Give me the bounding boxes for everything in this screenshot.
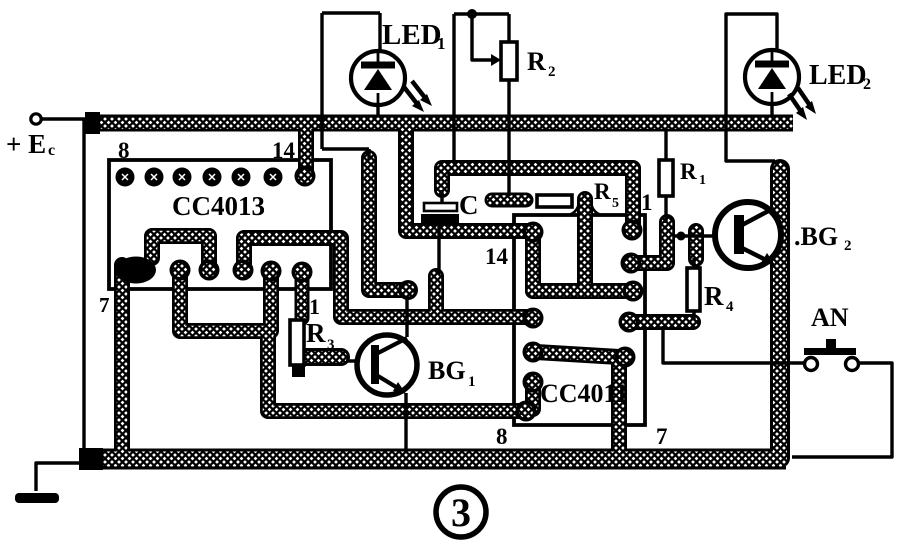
svg-text:7: 7 xyxy=(99,293,110,317)
svg-text:8: 8 xyxy=(118,138,130,163)
svg-text:1: 1 xyxy=(468,374,476,390)
svg-text:8: 8 xyxy=(496,424,508,449)
svg-text:3: 3 xyxy=(327,337,335,353)
svg-text:5: 5 xyxy=(612,196,619,211)
svg-text:14: 14 xyxy=(485,244,509,269)
svg-text:4: 4 xyxy=(726,299,734,315)
svg-text:LED: LED xyxy=(809,60,867,91)
svg-text:.BG: .BG xyxy=(794,222,838,251)
svg-text:AN: AN xyxy=(811,303,849,332)
svg-text:R: R xyxy=(704,281,724,311)
svg-text:14: 14 xyxy=(272,138,296,163)
svg-text:3: 3 xyxy=(451,490,471,535)
svg-text:R: R xyxy=(527,47,546,76)
svg-text:+ E: + E xyxy=(6,129,46,159)
svg-text:BG: BG xyxy=(428,356,466,385)
svg-text:1: 1 xyxy=(309,294,320,319)
svg-text:R: R xyxy=(680,159,697,184)
svg-text:1: 1 xyxy=(437,34,446,53)
svg-text:R: R xyxy=(594,179,611,204)
svg-text:CC4013: CC4013 xyxy=(172,191,265,221)
svg-text:C: C xyxy=(459,190,479,220)
svg-text:c: c xyxy=(48,142,55,159)
svg-text:CC4011: CC4011 xyxy=(540,379,628,408)
svg-text:7: 7 xyxy=(656,424,668,449)
svg-text:2: 2 xyxy=(863,76,871,93)
svg-text:LED: LED xyxy=(382,19,442,51)
svg-text:2: 2 xyxy=(548,64,556,80)
svg-text:1: 1 xyxy=(641,190,653,215)
svg-text:R: R xyxy=(306,318,326,348)
svg-text:2: 2 xyxy=(844,238,852,254)
svg-text:1: 1 xyxy=(699,173,706,188)
